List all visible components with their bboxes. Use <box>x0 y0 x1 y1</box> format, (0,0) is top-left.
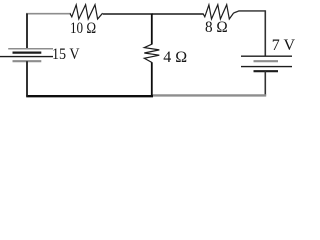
label 10 ohm <box>70 21 96 37</box>
wire top-right segment to corner <box>234 11 266 13</box>
wire right vertical upper <box>264 10 266 56</box>
battery V1 plate short gray <box>13 60 42 62</box>
label 7 V <box>272 38 295 54</box>
wire left vertical lower <box>26 61 28 96</box>
battery V2 plate long top <box>241 55 292 57</box>
wire right vertical lower <box>264 71 266 95</box>
label 15 V <box>52 47 80 63</box>
label 8 ohm <box>205 20 228 36</box>
wire left vertical upper <box>26 14 28 49</box>
resistor R3 4 ohm vertical zigzag <box>144 44 159 62</box>
battery V1 plate short black <box>13 51 42 53</box>
wire top-left gray segment <box>26 13 71 15</box>
wire middle vertical upper <box>151 14 153 45</box>
battery V2 plate short gray <box>254 60 279 62</box>
battery V2 plate short black <box>254 70 279 72</box>
wire middle vertical lower <box>151 62 153 96</box>
wire bottom-right gray <box>152 94 266 96</box>
battery V2 plate long bottom <box>241 66 292 68</box>
battery V1 plate long black <box>0 56 53 58</box>
wire top middle-left black segment <box>103 13 153 15</box>
wire bottom-left black <box>26 95 153 97</box>
resistor R1 10 ohm zigzag <box>70 5 103 19</box>
resistor R2 8 ohm zigzag <box>203 5 234 19</box>
battery V1 plate long gray top <box>8 48 53 50</box>
wire top middle-right black segment <box>152 13 204 15</box>
label 4 ohm <box>163 50 187 66</box>
